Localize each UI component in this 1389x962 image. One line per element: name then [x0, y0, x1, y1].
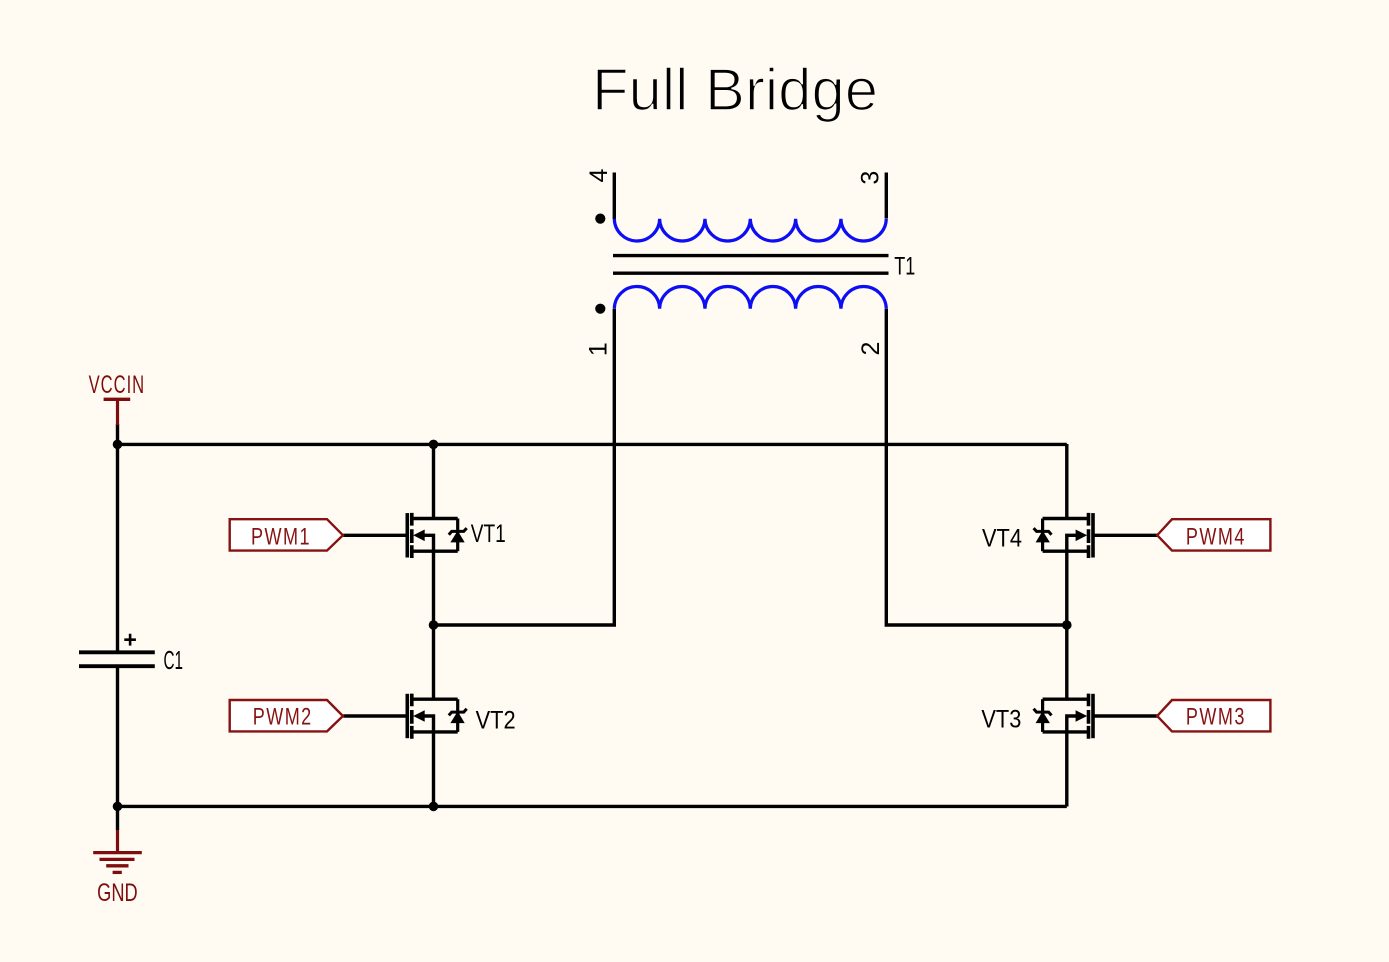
hier label PWM4 — [1157, 519, 1270, 550]
junction node VT2 source — [429, 802, 439, 812]
wire PWM4 gate — [1093, 534, 1158, 537]
wire left rail lower — [116, 666, 119, 830]
svg-text:VT3: VT3 — [981, 705, 1021, 733]
power flag VCCIN symbol — [104, 399, 131, 425]
wire VT4 source to mid node — [1065, 551, 1068, 625]
svg-text:2: 2 — [857, 342, 885, 356]
wire VT3 drain — [1065, 625, 1068, 700]
wire VT4 drain — [1065, 444, 1068, 519]
svg-text:PWM4: PWM4 — [1186, 524, 1246, 551]
junction node VT1 drain — [429, 440, 439, 450]
svg-text:PWM2: PWM2 — [253, 704, 313, 731]
capacitor C1 plus sign — [124, 634, 136, 646]
junction node GND rail — [113, 802, 123, 812]
transformer T1 — [595, 173, 888, 314]
transformer secondary winding — [614, 287, 886, 309]
wire bottom bus — [118, 805, 1067, 808]
junction node at VCCIN rail — [113, 440, 123, 450]
hier label PWM3 — [1157, 700, 1270, 731]
wire left rail upper — [116, 424, 119, 652]
wire transformer pin1 to left mid node — [434, 309, 615, 625]
wire top bus — [118, 443, 1067, 446]
transistor VT4 — [1034, 513, 1093, 558]
wire VT1 drain — [432, 444, 435, 519]
transformer primary winding — [614, 219, 886, 241]
wire PWM1 gate — [343, 534, 407, 537]
wire PWM3 gate — [1093, 714, 1158, 717]
transformer core lines — [613, 256, 889, 274]
wire PWM2 gate — [343, 714, 407, 717]
transistor VT3 — [1034, 694, 1093, 739]
wire VT2 source — [432, 732, 435, 807]
svg-text:VT1: VT1 — [471, 520, 506, 548]
transistor VT2 — [407, 694, 466, 739]
transformer pin 4 stub — [613, 173, 616, 220]
svg-text:PWM1: PWM1 — [251, 524, 311, 551]
ground symbol — [93, 830, 142, 872]
svg-text:C1: C1 — [164, 647, 184, 675]
svg-text:VT4: VT4 — [982, 525, 1022, 553]
wire VT2 drain — [432, 625, 435, 700]
svg-text:PWM3: PWM3 — [1186, 704, 1246, 731]
svg-text:VT2: VT2 — [476, 706, 516, 734]
transformer pin 3 stub — [885, 173, 888, 219]
hier label PWM2 — [230, 700, 343, 731]
svg-text:T1: T1 — [894, 252, 915, 280]
svg-text:VCCIN: VCCIN — [89, 371, 146, 399]
transformer polarity dot bottom — [595, 304, 605, 314]
transformer polarity dot top — [595, 214, 605, 224]
wire VT1 source to mid node — [432, 551, 435, 625]
transistor VT1 — [407, 513, 466, 558]
wire transformer pin2 to right mid node — [886, 309, 1067, 625]
svg-text:1: 1 — [585, 342, 613, 356]
capacitor C1 plates — [79, 652, 155, 666]
junction node left mid — [429, 620, 439, 630]
junction node right mid — [1062, 620, 1072, 630]
svg-text:3: 3 — [856, 171, 884, 185]
hier label PWM1 — [230, 519, 343, 550]
svg-text:GND: GND — [97, 879, 138, 907]
wire VT3 source — [1065, 732, 1068, 807]
svg-text:Full Bridge: Full Bridge — [592, 56, 878, 123]
svg-text:4: 4 — [585, 169, 613, 183]
